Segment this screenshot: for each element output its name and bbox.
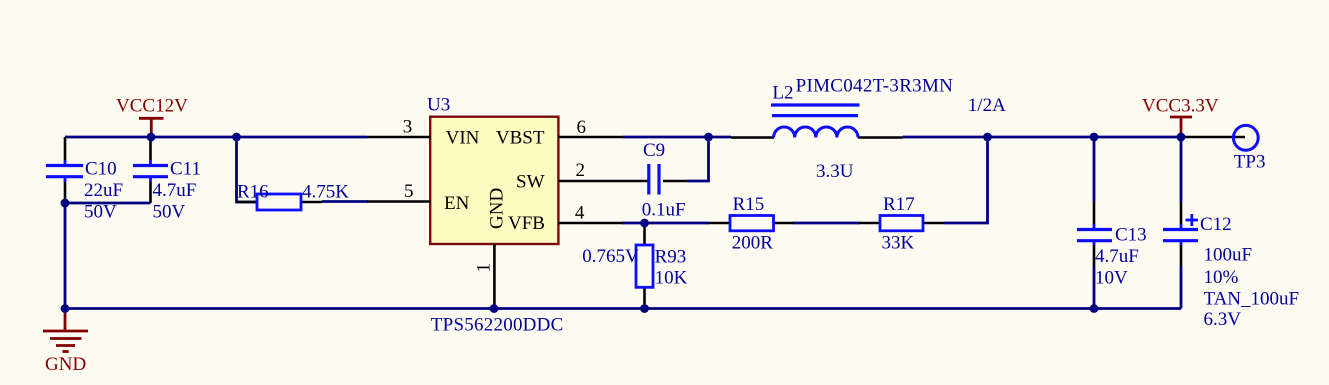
wire: R16 riser from top rail <box>237 137 258 202</box>
junction C10 bottom node <box>61 199 70 208</box>
wire: left vertical to GND node <box>64 203 67 309</box>
svg-text:L2: L2 <box>772 83 793 104</box>
svg-text:5: 5 <box>404 181 414 202</box>
svg-text:SW: SW <box>516 172 545 193</box>
junction C13 bus node <box>1090 304 1099 313</box>
svg-text:C13: C13 <box>1115 225 1147 246</box>
capacitor C10 <box>46 137 83 202</box>
svg-text:0.1uF: 0.1uF <box>642 200 686 221</box>
wire: C12 riser bottom <box>1180 266 1183 309</box>
wire: C12 riser top <box>1180 137 1183 202</box>
svg-text:4.7uF: 4.7uF <box>1095 246 1139 267</box>
svg-text:VBST: VBST <box>496 128 545 149</box>
svg-text:33K: 33K <box>882 232 915 253</box>
svg-text:50V: 50V <box>84 202 117 223</box>
svg-text:TP3: TP3 <box>1234 151 1266 172</box>
resistor R15 <box>709 216 795 231</box>
U3 pin 4 (VFB) <box>558 222 623 225</box>
wire: R17 to output riser <box>944 138 988 223</box>
svg-text:200R: 200R <box>732 232 774 253</box>
svg-text:22uF: 22uF <box>84 180 123 201</box>
power port VCC3.3V <box>1170 117 1192 137</box>
svg-text:4: 4 <box>575 203 585 224</box>
wire: pin6 to inductor left <box>623 136 731 139</box>
svg-text:10V: 10V <box>1095 268 1128 289</box>
capacitor C13 <box>1077 202 1112 267</box>
capacitor C9 <box>628 164 687 195</box>
svg-text:6: 6 <box>577 117 587 138</box>
svg-text:U3: U3 <box>427 95 450 116</box>
svg-text:C11: C11 <box>170 159 201 180</box>
svg-text:R16: R16 <box>237 182 269 203</box>
U3 pin 5 (EN) <box>367 200 431 203</box>
junction output node at inductor right <box>983 133 992 142</box>
svg-text:R15: R15 <box>733 194 765 215</box>
svg-text:C12: C12 <box>1200 214 1232 235</box>
resistor R16 <box>237 194 323 210</box>
U3 pin 6 (VBST) <box>558 136 623 139</box>
svg-text:2: 2 <box>576 160 586 181</box>
junction VCC3.3V node <box>1177 133 1186 142</box>
wire: R15 to R17 <box>793 222 860 225</box>
U3 pin 3 (VIN) <box>367 136 431 139</box>
wire: top rail right of inductor to VCC3.3V node <box>903 136 1181 139</box>
svg-text:1: 1 <box>474 263 495 273</box>
svg-text:0.765V: 0.765V <box>582 246 639 267</box>
power port VCC12V <box>139 118 164 137</box>
test point TP3 <box>1233 125 1258 150</box>
svg-text:VFB: VFB <box>508 213 545 234</box>
wire: black wire VCC3.3V node to TP3 <box>1181 136 1245 139</box>
wire: C13 riser bottom <box>1093 267 1096 309</box>
wire: top rail left (VCC12V node) <box>65 136 367 139</box>
svg-text:GND: GND <box>487 188 508 229</box>
svg-text:100uF: 100uF <box>1204 245 1253 266</box>
svg-text:3: 3 <box>403 117 413 138</box>
wire: bottom ground bus <box>65 307 1181 310</box>
junction VFB/R93 node <box>640 219 649 228</box>
wire: C10 bottom to C11 bottom <box>65 202 151 205</box>
svg-text:TPS562200DDC: TPS562200DDC <box>431 314 564 335</box>
svg-text:1/2A: 1/2A <box>968 95 1006 116</box>
wire: VFB node to R15 <box>622 222 709 225</box>
svg-text:6.3V: 6.3V <box>1204 309 1242 330</box>
svg-text:VCC12V: VCC12V <box>116 96 188 117</box>
wire: C9 right to SW node riser <box>687 138 709 181</box>
wire: C13 riser top <box>1093 137 1096 202</box>
svg-text:3.3U: 3.3U <box>816 161 854 182</box>
svg-text:10%: 10% <box>1204 267 1239 288</box>
U3 pin 2 (SW) <box>558 180 628 183</box>
svg-text:VCC3.3V: VCC3.3V <box>1142 96 1219 117</box>
svg-text:50V: 50V <box>153 202 186 223</box>
svg-text:4.7uF: 4.7uF <box>153 180 197 201</box>
svg-text:PIMC042T-3R3MN: PIMC042T-3R3MN <box>796 76 954 97</box>
svg-text:R93: R93 <box>655 246 687 267</box>
capacitor C12 (polarized) <box>1163 202 1198 266</box>
capacitor C11 <box>133 138 168 203</box>
junction SW/C9 node <box>704 133 713 142</box>
svg-text:TAN_100uF: TAN_100uF <box>1204 289 1300 310</box>
svg-text:EN: EN <box>444 193 470 214</box>
junction VCC12V node <box>147 133 156 142</box>
svg-text:C9: C9 <box>643 140 665 161</box>
junction GND bus left node <box>61 304 70 313</box>
svg-text:R17: R17 <box>883 194 915 215</box>
svg-text:C10: C10 <box>85 159 117 180</box>
svg-text:VIN: VIN <box>446 128 480 149</box>
svg-text:GND: GND <box>45 354 86 375</box>
svg-text:4.75K: 4.75K <box>302 182 349 203</box>
junction U3 pin1 bus node <box>490 304 499 313</box>
junction R16 riser node <box>232 133 241 142</box>
resistor R17 <box>859 216 944 231</box>
U3 pin 1 (GND pin stub) <box>493 244 496 309</box>
op-amp U3 (regulator TPS562200DDC) body <box>430 117 558 244</box>
svg-text:10K: 10K <box>655 268 688 289</box>
wire: R16 to pin5 <box>322 200 368 203</box>
inductor L2 <box>731 105 903 138</box>
resistor R93 <box>636 224 653 309</box>
junction C13 top node <box>1090 133 1099 142</box>
junction R93 bus node <box>640 304 649 313</box>
ground GND symbol <box>43 309 88 352</box>
